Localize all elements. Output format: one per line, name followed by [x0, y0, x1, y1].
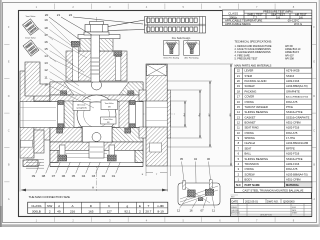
svg-text:SLIDING BEARING: SLIDING BEARING: [245, 157, 269, 161]
svg-text:A: A: [313, 197, 315, 201]
svg-text:PACKING GLAND: PACKING GLAND: [245, 79, 267, 83]
svg-text:06: 06: [62, 174, 66, 178]
svg-text:04: 04: [82, 174, 86, 178]
body lower-right wedge hatch: [112, 128, 143, 143]
svg-text:A351-CF8M: A351-CF8M: [286, 121, 301, 125]
svg-text:CAST STEEL TRUNNION MOUNTED BA: CAST STEEL TRUNNION MOUNTED BALLVALVE: [243, 188, 304, 192]
svg-text:3/8: 3/8: [108, 107, 111, 109]
seat o-ring lower-right: [125, 128, 131, 133]
svg-text:D: D: [313, 94, 315, 98]
svg-text:02: 02: [102, 174, 106, 178]
end view hub: [139, 90, 146, 138]
callout numbers 20 21 22 top: [45, 13, 143, 40]
svg-text:A182-F316: A182-F316: [286, 162, 300, 166]
svg-text:0.6: 0.6: [299, 15, 303, 19]
svg-text:12: 12: [237, 121, 240, 125]
svg-text:TRUNNION: TRUNNION: [245, 162, 259, 166]
svg-text:NW: NW: [47, 204, 52, 208]
zone tick marks and numbers top edge: [36, 4, 295, 10]
body lower-right side hatch: [135, 150, 143, 162]
svg-text:g: g: [127, 204, 129, 208]
E T small dimensions: [142, 138, 171, 176]
svg-text:C: C: [313, 128, 315, 132]
svg-text:10: 10: [44, 82, 48, 86]
left flange hub: [34, 88, 52, 140]
svg-text:PTFE: PTFE: [286, 105, 293, 109]
packing gland: [80, 39, 113, 51]
body upper-right wedge hatch: [119, 82, 143, 95]
svg-text:Drain Valve: Drain Valve: [104, 119, 113, 121]
svg-text:21: 21: [237, 74, 240, 78]
svg-text:A: A: [8, 197, 10, 201]
svg-text:n-Φh: n-Φh: [157, 204, 164, 208]
svg-text:SHEET: SHEET: [292, 213, 297, 215]
svg-text:22: 22: [237, 69, 240, 73]
end view raised face: [167, 90, 170, 138]
svg-text:FKM-A75: FKM-A75: [286, 167, 298, 171]
lower body bolt left: [58, 145, 67, 161]
svg-text:08: 08: [42, 174, 46, 178]
svg-text:8-19: 8-19: [157, 210, 163, 214]
svg-text:09: 09: [32, 174, 36, 178]
seat detail crosshatch blob left: [188, 190, 196, 197]
svg-text:19: 19: [44, 18, 48, 22]
svg-text:Before Fire Sealing: Before Fire Sealing: [164, 57, 179, 59]
svg-text:11: 11: [237, 126, 240, 130]
svg-text:After Fire Sealing: After Fire Sealing: [185, 56, 199, 59]
svg-text:MATERIAL: MATERIAL: [286, 183, 300, 187]
svg-text:GRAPHITE: GRAPHITE: [286, 89, 300, 93]
pressure test table: [222, 10, 311, 26]
trunnion column: [89, 142, 104, 158]
svg-text:Anti static: Anti static: [77, 103, 85, 106]
drain valve label: [101, 117, 117, 124]
svg-text:C: C: [8, 128, 10, 132]
fire safe detail box before: [163, 41, 179, 60]
svg-text:THE MAIN CONNECTION SIZE: THE MAIN CONNECTION SIZE: [29, 195, 70, 199]
vertical centerline of valve: [96, 17, 98, 191]
svg-text:2: 2: [49, 210, 51, 214]
revision strip: [231, 195, 239, 199]
svg-text:SLIDING BEARING: SLIDING BEARING: [245, 110, 269, 114]
lever connection lines: [108, 20, 145, 31]
seat detail right post: [209, 180, 212, 189]
bonnet bolt right: [114, 51, 122, 81]
svg-text:d: d: [58, 204, 60, 208]
svg-text:18: 18: [44, 26, 48, 30]
svg-text:COVER: COVER: [245, 95, 255, 99]
svg-text:MAIN PARTS AND MATERIALS: MAIN PARTS AND MATERIALS: [235, 63, 272, 67]
svg-text:A351-CF8M/A182-F316: A351-CF8M/A182-F316: [286, 96, 309, 99]
svg-text:A276-WCB: A276-WCB: [286, 69, 300, 73]
svg-text:17-7PH: 17-7PH: [286, 136, 295, 140]
seat o-ring upper-right: [128, 91, 134, 96]
svg-text:216: 216: [70, 210, 75, 214]
callout numbers 19-10 left column with leaders: [44, 18, 94, 108]
svg-text:FKM-A75: FKM-A75: [286, 131, 298, 135]
svg-text:T: T: [147, 204, 149, 208]
svg-text:SEAT: SEAT: [245, 146, 252, 150]
bonnet flange: [66, 51, 127, 81]
valve body left flange plate (section): [20, 71, 34, 158]
svg-text:17: 17: [44, 33, 48, 37]
svg-text:A193-B8M(A4-70): A193-B8M(A4-70): [286, 172, 308, 176]
lever bar (top view): [145, 17, 206, 34]
svg-text:5. PRESSURE TEST: 5. PRESSURE TEST: [235, 58, 258, 61]
svg-text:PACKING: PACKING: [245, 89, 257, 93]
body lower-left side hatch: [50, 150, 58, 162]
svg-text:17: 17: [237, 95, 240, 99]
svg-text:18: 18: [237, 89, 240, 93]
technical specifications text: [235, 39, 301, 67]
seat detail callouts below: [177, 196, 215, 212]
svg-text:07: 07: [52, 174, 56, 178]
body upper-left wedge hatch: [50, 82, 74, 95]
right seat retainer hatch: [119, 101, 129, 128]
lower body bolt right: [107, 145, 116, 161]
svg-text:01: 01: [112, 174, 116, 178]
parts table header row: [235, 182, 312, 187]
svg-text:19: 19: [237, 84, 240, 88]
drain valve mini detail: [23, 37, 39, 57]
raised face lines left flange: [22, 102, 24, 128]
left seat o-ring bottom: [58, 124, 64, 128]
svg-text:A193-B8M(A4-70): A193-B8M(A4-70): [286, 84, 308, 88]
valve body outline: [50, 82, 143, 167]
stem: [91, 34, 100, 82]
svg-text:SS316+PTFE: SS316+PTFE: [286, 157, 303, 161]
svg-text:Drain Valve: Drain Valve: [25, 37, 36, 40]
svg-text:CHECKED: CHECKED: [231, 210, 240, 212]
svg-text:Vent Valve: Vent Valve: [26, 15, 37, 18]
body bottom wall hatch band: [50, 142, 143, 150]
svg-text:W.O.G: W.O.G: [294, 22, 302, 26]
end view bore band: [146, 101, 171, 127]
title block signature table: [231, 203, 312, 216]
svg-text:DATE: DATE: [232, 199, 239, 203]
right seat ring white: [129, 101, 136, 128]
svg-text:Nut/Stud: Nut/Stud: [245, 141, 256, 145]
svg-text:13: 13: [237, 115, 240, 119]
svg-text:SEAT RING: SEAT RING: [245, 126, 259, 130]
svg-text:15: 15: [237, 105, 240, 109]
seat detail crosshatch blob right: [205, 189, 214, 195]
svg-text:DESCRIPTION: DESCRIPTION: [260, 215, 272, 217]
svg-text:SS316+PTFE: SS316+PTFE: [286, 110, 303, 114]
svg-text:ΦD: ΦD: [229, 113, 232, 117]
svg-text:A351-CF8M: A351-CF8M: [286, 178, 301, 182]
svg-text:E: E: [8, 60, 10, 64]
body bottom outline steps: [50, 150, 143, 166]
drain valve mini leader: [39, 48, 57, 63]
svg-text:49: 49: [57, 210, 61, 214]
callout numbers 09-01 bottom row with leaders: [32, 162, 121, 178]
connection size table: [28, 202, 168, 213]
svg-text:5.6: 5.6: [276, 15, 280, 19]
ball: [77, 95, 116, 134]
svg-text:12: 12: [44, 68, 48, 72]
svg-text:A182-F316: A182-F316: [286, 152, 300, 156]
svg-text:O'RING: O'RING: [245, 131, 254, 135]
svg-text:B: B: [8, 163, 10, 167]
zone tick marks and letters right edge: [312, 25, 316, 201]
svg-text:20: 20: [237, 79, 240, 83]
trunnion plate: [82, 127, 112, 143]
svg-text:RPTFE: RPTFE: [286, 146, 295, 150]
svg-text:16: 16: [189, 208, 193, 212]
seat detail small blob center: [198, 198, 203, 201]
stem nut (hex): [84, 22, 109, 36]
svg-text:APPLICABLE MEDIA: APPLICABLE MEDIA: [225, 22, 251, 26]
svg-text:07: 07: [200, 208, 204, 212]
horizontal pipe centerline: [19, 113, 175, 115]
drawing title row: [235, 187, 312, 192]
svg-text:SCREW: SCREW: [245, 172, 255, 176]
svg-text:spring(SUS): spring(SUS): [76, 107, 87, 110]
svg-text:20: 20: [45, 13, 49, 17]
svg-text:92.1: 92.1: [124, 210, 130, 214]
svg-text:05: 05: [72, 174, 76, 178]
body lower-left wedge hatch: [50, 128, 82, 143]
svg-text:SS316: SS316: [286, 74, 295, 78]
bore band white: [20, 102, 143, 128]
svg-text:14: 14: [44, 54, 48, 58]
svg-text:TECHNICAL SPECIFICATIONS:: TECHNICAL SPECIFICATIONS:: [235, 39, 273, 43]
svg-text:14: 14: [237, 110, 240, 114]
dimension line d: [183, 101, 186, 127]
svg-text:E: E: [139, 204, 141, 208]
svg-text:165: 165: [88, 210, 93, 214]
svg-text:300LB: 300LB: [32, 210, 41, 214]
svg-text:127: 127: [107, 210, 112, 214]
body lower-left block: [23, 130, 44, 168]
dimension line C: [208, 81, 211, 147]
svg-text:E: E: [313, 60, 315, 64]
svg-text:A: A: [92, 186, 94, 190]
svg-text:2022.09.01: 2022.09.01: [245, 199, 259, 203]
right seat o-ring bottom: [130, 124, 136, 128]
svg-text:SCREW: SCREW: [245, 84, 255, 88]
svg-text:2: 2: [139, 210, 141, 214]
svg-text:BALL: BALL: [245, 152, 252, 156]
svg-text:16: 16: [44, 40, 48, 44]
svg-text:API 598: API 598: [285, 58, 294, 61]
svg-text:Fire Safe Design: Fire Safe Design: [172, 37, 191, 40]
svg-text:20.7: 20.7: [145, 210, 151, 214]
svg-text:13: 13: [44, 61, 48, 65]
svg-text:N.O: N.O: [236, 184, 241, 187]
svg-text:12: 12: [177, 208, 181, 212]
svg-text:ΦC: ΦC: [208, 113, 211, 117]
seat o-ring upper-left: [61, 91, 67, 96]
svg-text:B: B: [313, 163, 315, 167]
svg-text:SPRING: SPRING: [245, 136, 255, 140]
dimension extension lines: [167, 64, 233, 166]
svg-text:THRUST WASHER: THRUST WASHER: [245, 105, 268, 109]
svg-text:11: 11: [44, 75, 47, 79]
svg-text:03: 03: [92, 174, 96, 178]
zone tick marks and numbers bottom edge: [36, 217, 295, 222]
seat detail view box: [178, 183, 220, 205]
svg-text:D: D: [8, 94, 10, 98]
svg-text:STEM: STEM: [245, 74, 253, 78]
end view flange plate: [146, 64, 167, 166]
svg-text:10: 10: [237, 131, 240, 135]
right seat o-ring top: [130, 100, 136, 104]
svg-text:O'RING: O'RING: [245, 167, 254, 171]
left seat o-ring top: [58, 100, 64, 104]
stem-ball connection: [92, 80, 102, 90]
dimension line g: [198, 90, 201, 138]
body upper-left shoulder block: [25, 62, 52, 96]
anti static spring label: [73, 102, 90, 111]
vent valve label: [101, 100, 118, 110]
svg-text:CLASS: CLASS: [31, 204, 41, 208]
svg-text:3/8: 3/8: [107, 122, 110, 124]
main parts and materials table: [235, 68, 312, 182]
svg-text:PART NAME: PART NAME: [245, 183, 260, 187]
zone tick marks and letters left edge: [4, 25, 10, 201]
dimension line D: [229, 64, 232, 166]
dimension A face-to-face: [20, 158, 168, 192]
svg-text:Vent Valve: Vent Valve: [105, 102, 114, 105]
svg-text:FKM-A75: FKM-A75: [286, 100, 298, 104]
gland flange plate: [78, 35, 120, 39]
svg-text:22: 22: [69, 13, 73, 17]
seat o-ring lower-left: [57, 128, 63, 133]
left seat retainer hatch: [64, 101, 74, 128]
bonnet bolt left: [71, 41, 79, 81]
svg-text:21: 21: [57, 13, 61, 17]
svg-text:A182-F316: A182-F316: [286, 79, 300, 83]
drawing frame: [19, 11, 312, 217]
svg-text:BODY: BODY: [245, 178, 253, 182]
svg-text:BONNET: BONNET: [245, 121, 257, 125]
svg-text:LEVER: LEVER: [245, 69, 254, 73]
fire safe detail box after: [184, 41, 200, 60]
seat detail left post: [183, 181, 186, 190]
date / dwg no row: [231, 199, 312, 204]
svg-text:SS316+GRAPHITE: SS316+GRAPHITE: [286, 115, 310, 119]
vent valve mini detail: [23, 15, 39, 35]
vent valve mini leader: [37, 27, 53, 40]
svg-text:11: 11: [212, 208, 215, 212]
svg-text:Q000000: Q000000: [283, 199, 295, 203]
svg-text:DWG NO.: DWG NO.: [267, 199, 279, 203]
svg-text:O'RING: O'RING: [245, 100, 254, 104]
svg-text:GASKET: GASKET: [245, 115, 256, 119]
svg-text:15: 15: [44, 47, 48, 51]
left seat ring white: [58, 101, 65, 128]
svg-text:A193-B8/A194-8M: A193-B8/A194-8M: [286, 141, 309, 145]
seat detail leaders top: [182, 162, 211, 184]
svg-text:A182-F316: A182-F316: [286, 126, 300, 130]
body top wall hatch band: [50, 95, 143, 102]
svg-text:16: 16: [237, 100, 240, 104]
